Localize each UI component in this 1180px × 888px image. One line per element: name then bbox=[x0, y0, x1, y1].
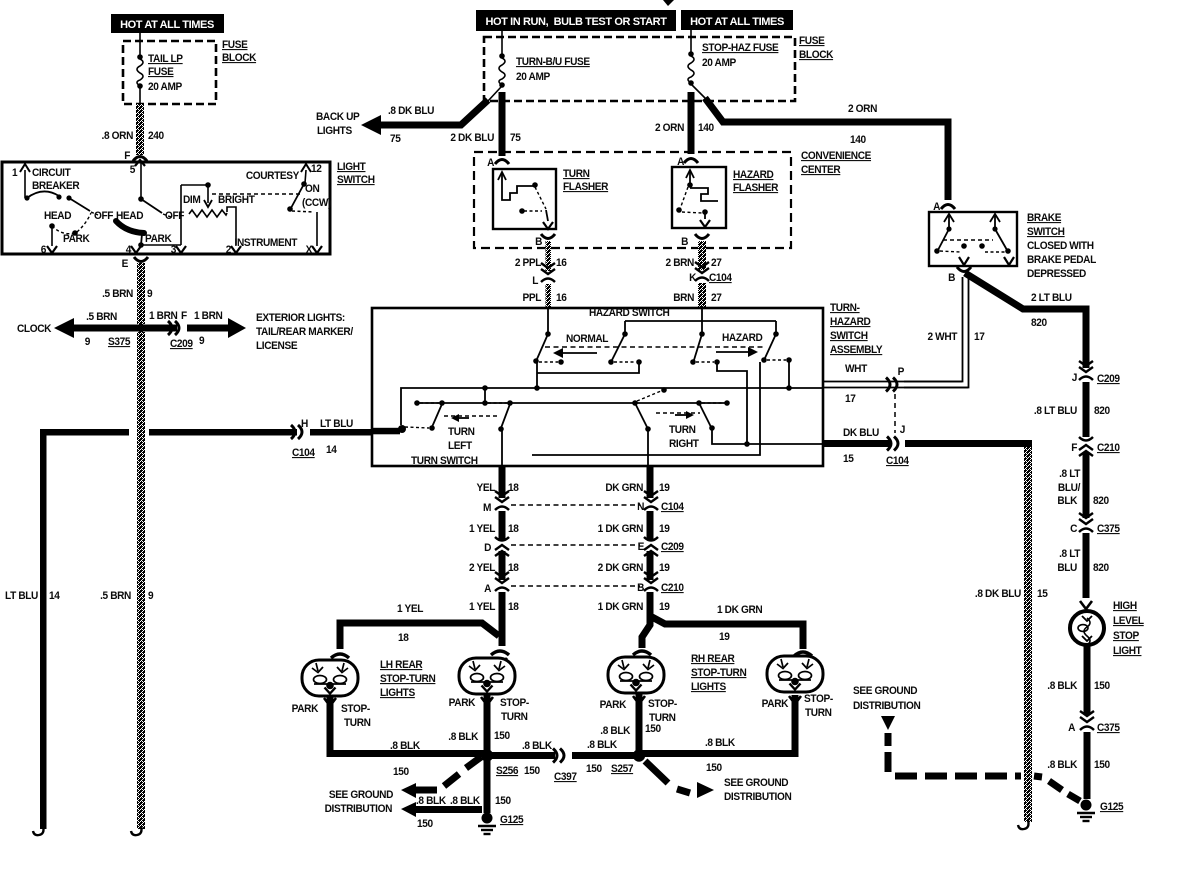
svg-text:27: 27 bbox=[711, 257, 722, 269]
label DK GRN 19 bbox=[605, 482, 670, 494]
wire DK BLU to corner bbox=[905, 440, 1032, 447]
feed label HOT IN RUN, BULB TEST OR START bbox=[476, 10, 676, 31]
connector A hazard flasher bbox=[677, 156, 698, 168]
wire 2 ORN 140 top run to brake switch bbox=[705, 98, 948, 200]
wire S256 ground stub upper (dashed) bbox=[401, 757, 481, 798]
turn right second arm bbox=[699, 403, 822, 447]
splice S375 dot overlay bbox=[137, 324, 145, 332]
wire LT BLU 14 horizontal (left of speckled wire) bbox=[43, 429, 129, 436]
wire lamp4 to S257 bbox=[639, 695, 795, 754]
rheostat zigzag bbox=[189, 210, 227, 217]
svg-text:C210: C210 bbox=[1097, 442, 1120, 454]
svg-text:150: 150 bbox=[645, 723, 661, 735]
svg-text:LIGHT: LIGHT bbox=[337, 161, 366, 173]
wire S256 to G125 bbox=[484, 755, 491, 813]
svg-text:FUSE: FUSE bbox=[799, 35, 825, 47]
svg-text:15: 15 bbox=[1037, 588, 1048, 600]
wire turn switch rail bbox=[414, 388, 730, 406]
label CONVENIENCE CENTER bbox=[801, 150, 871, 176]
svg-text:TURN: TURN bbox=[563, 168, 590, 180]
svg-text:BLOCK: BLOCK bbox=[222, 52, 257, 64]
label PARK / STOP-TURN (lamp1) bbox=[292, 703, 371, 729]
wire 1 YEL 18 (lower) bbox=[499, 592, 506, 640]
svg-text:BRAKE: BRAKE bbox=[1027, 212, 1061, 224]
svg-text:9: 9 bbox=[85, 336, 91, 348]
label .8 DK BLU 15 bbox=[975, 588, 1048, 600]
svg-text:BLOCK: BLOCK bbox=[799, 49, 834, 61]
wire .8 BLK 150 (lower) bbox=[1084, 732, 1091, 799]
label 2 ORN 140 (top run) bbox=[848, 103, 877, 146]
svg-text:DISTRIBUTION: DISTRIBUTION bbox=[853, 700, 920, 712]
arrow into lamp 3 bbox=[633, 651, 651, 666]
connector C C375 bbox=[1070, 513, 1120, 535]
svg-text:9: 9 bbox=[148, 590, 154, 602]
svg-text:BLK: BLK bbox=[1057, 495, 1077, 507]
svg-text:HOT AT ALL TIMES: HOT AT ALL TIMES bbox=[120, 19, 214, 31]
svg-text:16: 16 bbox=[556, 257, 567, 269]
brake switch internals bbox=[938, 214, 1014, 265]
arrow out of lamp 3 bbox=[633, 696, 645, 704]
svg-text:CLOSED WITH: CLOSED WITH bbox=[1027, 240, 1094, 252]
svg-text:RH REAR: RH REAR bbox=[691, 653, 735, 665]
svg-text:2 YEL: 2 YEL bbox=[469, 562, 496, 574]
label .5 BRN 9 (lower) bbox=[100, 590, 154, 602]
svg-text:OFF: OFF bbox=[94, 210, 114, 222]
svg-text:150: 150 bbox=[494, 730, 510, 742]
svg-text:HEAD: HEAD bbox=[44, 210, 72, 222]
label .8 BLK 150 (lamp1 run) bbox=[390, 740, 421, 778]
svg-text:TURN: TURN bbox=[448, 426, 475, 438]
wire hazard contact 1 routing bbox=[537, 361, 639, 390]
dashed link normal-hazard bbox=[545, 346, 764, 348]
svg-text:1 DK GRN: 1 DK GRN bbox=[598, 523, 643, 535]
svg-text:RIGHT: RIGHT bbox=[669, 438, 699, 450]
svg-text:TURN: TURN bbox=[344, 717, 371, 729]
svg-text:TURN-: TURN- bbox=[830, 302, 860, 314]
svg-text:B: B bbox=[948, 272, 956, 284]
connector A / B C210 bbox=[484, 572, 684, 595]
wire .8 BLK 150 below bulb bbox=[1084, 645, 1091, 715]
wire PPL 16 (speckled) bbox=[546, 284, 552, 309]
svg-text:140: 140 bbox=[850, 134, 866, 146]
svg-text:2 PPL: 2 PPL bbox=[515, 257, 542, 269]
wire BRN entry into hazard switch bbox=[622, 309, 779, 337]
svg-text:STOP-HAZ FUSE: STOP-HAZ FUSE bbox=[702, 42, 779, 54]
svg-text:DISTRIBUTION: DISTRIBUTION bbox=[724, 791, 791, 803]
turn left switch arm bbox=[405, 400, 445, 431]
svg-text:K: K bbox=[689, 272, 697, 284]
connector P bbox=[886, 366, 904, 392]
svg-text:SWITCH: SWITCH bbox=[830, 330, 868, 342]
labels .5 BRN 9 S375 bbox=[85, 311, 131, 348]
svg-text:SEE GROUND: SEE GROUND bbox=[724, 777, 789, 789]
svg-text:B: B bbox=[681, 236, 689, 248]
label .8 BLK 150 (lamp3 drop) bbox=[600, 723, 661, 737]
turn-hazard switch assembly box bbox=[372, 308, 823, 466]
dashed link P to J bbox=[894, 394, 896, 433]
svg-text:.8 BLK: .8 BLK bbox=[587, 739, 618, 751]
svg-text:BACK UP: BACK UP bbox=[316, 111, 360, 123]
label CIRCUIT BREAKER bbox=[32, 167, 80, 192]
svg-text:E: E bbox=[122, 258, 129, 270]
svg-text:3: 3 bbox=[171, 244, 177, 256]
label EXTERIOR LIGHTS: TAIL/REAR MARKER/ LICENSE bbox=[256, 312, 353, 352]
svg-text:18: 18 bbox=[508, 562, 519, 574]
svg-text:S375: S375 bbox=[108, 336, 131, 348]
svg-text:C104: C104 bbox=[709, 272, 732, 284]
splice S375 bbox=[137, 324, 145, 332]
wire .8 LT BLU 820 (lower) bbox=[1083, 533, 1090, 598]
label FUSE BLOCK (left) bbox=[222, 39, 257, 64]
svg-text:HAZARD: HAZARD bbox=[733, 169, 774, 181]
ground G125 (right) bbox=[1077, 800, 1124, 822]
svg-text:.5 BRN: .5 BRN bbox=[100, 590, 131, 602]
svg-text:A: A bbox=[1068, 722, 1076, 734]
svg-text:.8 LT: .8 LT bbox=[1059, 468, 1081, 480]
label PARK / STOP-TURN (lamp2) bbox=[449, 697, 530, 723]
svg-text:STOP-: STOP- bbox=[341, 703, 371, 715]
wire arrow to CLOCK bbox=[17, 318, 141, 338]
svg-text:G125: G125 bbox=[500, 814, 524, 826]
label .8 BLK 150 (lower) bbox=[1047, 759, 1110, 771]
svg-text:SWITCH: SWITCH bbox=[1027, 226, 1065, 238]
hazard arm 2 bbox=[690, 334, 720, 365]
svg-text:BLU: BLU bbox=[1057, 562, 1077, 574]
svg-text:PARK: PARK bbox=[449, 697, 476, 709]
svg-text:DK GRN: DK GRN bbox=[605, 482, 643, 494]
svg-text:ON: ON bbox=[305, 183, 319, 195]
label 2 YEL 18 bbox=[469, 562, 519, 574]
wire lamp3 to S257 bbox=[636, 694, 643, 755]
svg-text:LT BLU: LT BLU bbox=[5, 590, 38, 602]
courtesy switch arm bbox=[287, 181, 314, 212]
wire bottom link rail bbox=[532, 362, 760, 455]
svg-text:C104: C104 bbox=[886, 455, 909, 467]
svg-text:C209: C209 bbox=[1097, 373, 1120, 385]
svg-text:WHT: WHT bbox=[845, 363, 868, 375]
label NORMAL with arrow bbox=[553, 333, 609, 358]
lamp RH rear 3 bbox=[608, 657, 664, 693]
hazard flasher box bbox=[672, 167, 726, 228]
svg-text:TURN: TURN bbox=[649, 712, 676, 724]
svg-text:M: M bbox=[483, 502, 492, 514]
label 1 YEL 18 (branch) bbox=[397, 603, 424, 644]
bulb HIGH LEVEL STOP LIGHT bbox=[1070, 611, 1104, 645]
svg-text:SWITCH: SWITCH bbox=[337, 174, 375, 186]
svg-text:LT BLU: LT BLU bbox=[320, 418, 353, 430]
turn left yel arm bbox=[488, 403, 510, 466]
svg-text:SEE GROUND: SEE GROUND bbox=[329, 789, 394, 801]
arrow into lamp 2 bbox=[491, 651, 509, 666]
label .8 BLK 150 (lamp4 run) bbox=[705, 737, 736, 774]
lamp RH rear 4 bbox=[767, 656, 823, 692]
wire WHT feed rail bbox=[401, 385, 822, 425]
svg-text:1: 1 bbox=[12, 167, 18, 179]
bottom terminal arrows bbox=[47, 246, 322, 253]
svg-text:N: N bbox=[637, 501, 644, 513]
feed label HOT AT ALL TIMES (left) bbox=[111, 14, 224, 33]
wiper arrow onto rheostat bbox=[204, 187, 212, 207]
svg-text:240: 240 bbox=[148, 130, 164, 142]
ground G125 (left) bbox=[478, 813, 524, 835]
connector E below light switch bbox=[122, 257, 148, 270]
svg-text:TAIL/REAR MARKER/: TAIL/REAR MARKER/ bbox=[256, 326, 353, 338]
wire .8 DK BLU to back up lights bbox=[380, 100, 488, 125]
connector B turn flasher bbox=[535, 234, 555, 248]
wire 1 BRN to exterior lights bbox=[141, 318, 246, 338]
svg-text:DISTRIBUTION: DISTRIBUTION bbox=[325, 803, 392, 815]
fuse block box (left, dashed) bbox=[123, 41, 216, 104]
labels 1 BRN F 1 BRN C209 9 bbox=[149, 310, 222, 350]
dim-bright feed wire bbox=[181, 182, 211, 245]
head contact left bbox=[49, 213, 91, 246]
svg-text:C210: C210 bbox=[661, 582, 684, 594]
svg-text:(CCW): (CCW) bbox=[302, 197, 331, 209]
connector H C104 bbox=[291, 418, 353, 459]
wire blade to terminal 4 bbox=[138, 234, 144, 248]
svg-text:G125: G125 bbox=[1100, 801, 1124, 813]
label .8 ORN 240 bbox=[102, 130, 165, 142]
svg-text:PPL: PPL bbox=[523, 292, 542, 304]
turn flasher internals bbox=[498, 172, 553, 229]
wire .5 BRN 9 (speckled) bbox=[137, 263, 145, 324]
svg-text:150: 150 bbox=[393, 766, 409, 778]
svg-text:C375: C375 bbox=[1097, 722, 1120, 734]
wire S256 ground stub lower bbox=[401, 802, 482, 817]
label BRN 27 bbox=[673, 292, 722, 304]
svg-text:2 ORN: 2 ORN bbox=[848, 103, 877, 115]
svg-text:18: 18 bbox=[508, 601, 519, 613]
svg-text:CIRCUIT: CIRCUIT bbox=[32, 167, 71, 179]
wire ground distribution dashed run bbox=[881, 716, 1080, 801]
label TURN RIGHT with arrow bbox=[656, 411, 700, 450]
svg-text:LIGHT: LIGHT bbox=[1113, 645, 1142, 657]
wire hazard contact 2 routing bbox=[717, 362, 747, 443]
wire lamp2 to S256 bbox=[484, 695, 491, 755]
circuit breaker element bbox=[24, 191, 98, 215]
label STOP-HAZ FUSE 20 AMP bbox=[702, 42, 779, 69]
label SEE GROUND DISTRIBUTION (left) bbox=[325, 789, 394, 815]
wire fuse to block edge bbox=[139, 86, 141, 104]
svg-text:2 DK GRN: 2 DK GRN bbox=[598, 562, 643, 574]
arrow into stop light bbox=[1080, 601, 1092, 609]
wire 2 DK GRN 19 bbox=[647, 551, 654, 580]
wire PPL entry into hazard switch bbox=[545, 309, 551, 337]
label TURN LEFT with arrow bbox=[444, 414, 497, 452]
wire S256 to C397 bbox=[487, 752, 555, 759]
wire to terminal X bbox=[316, 212, 318, 246]
label .8 DK BLU 75 bbox=[388, 105, 434, 145]
labels DIM BRIGHT bbox=[183, 194, 255, 206]
svg-text:STOP-: STOP- bbox=[804, 693, 834, 705]
label 2 ORN 140 (flasher) bbox=[655, 122, 714, 134]
svg-text:HEAD: HEAD bbox=[116, 210, 144, 222]
connector A C375 bbox=[1068, 711, 1120, 734]
connector B brake switch bbox=[948, 267, 971, 284]
light switch box bbox=[2, 162, 330, 254]
terminal 12 arrow bbox=[301, 163, 322, 183]
svg-text:C: C bbox=[1070, 523, 1078, 535]
svg-text:BRIGHT: BRIGHT bbox=[218, 194, 255, 206]
svg-text:DK BLU: DK BLU bbox=[843, 427, 879, 439]
svg-text:150: 150 bbox=[1094, 759, 1110, 771]
wire S257 ground stub (dashed) bbox=[645, 761, 714, 798]
wire 1 DK GRN 19 branch to RH lamp 4 bbox=[652, 617, 803, 649]
svg-text:OFF: OFF bbox=[165, 210, 185, 222]
label DK BLU 15 bbox=[843, 427, 879, 465]
switch arm 5-OFF bbox=[141, 199, 171, 217]
svg-text:DEPRESSED: DEPRESSED bbox=[1027, 268, 1087, 280]
wire 1 YEL 18 branch to LH lamp bbox=[340, 623, 499, 649]
label HIGH LEVEL STOP LIGHT bbox=[1113, 600, 1145, 657]
svg-text:140: 140 bbox=[698, 122, 714, 134]
svg-text:1 YEL: 1 YEL bbox=[469, 601, 496, 613]
connector J C104 bbox=[886, 424, 909, 467]
label .8 LT BLU/BLK 820 bbox=[1057, 468, 1109, 507]
connector K C104 bbox=[689, 262, 732, 284]
wire .8 LT BLU 820 bbox=[1083, 382, 1090, 437]
wire .8 ORN 240 (speckled) bbox=[136, 104, 144, 155]
label PARK / STOP-TURN (lamp3) bbox=[600, 698, 678, 724]
svg-text:BLU/: BLU/ bbox=[1058, 482, 1081, 494]
arrow into lamp 1 bbox=[331, 654, 349, 669]
svg-text:19: 19 bbox=[719, 631, 730, 643]
wire rheostat to terminal 2 bbox=[227, 207, 236, 245]
svg-text:SEE GROUND: SEE GROUND bbox=[853, 685, 918, 697]
wire 2 PPL 16 (speckled) bbox=[546, 241, 552, 271]
svg-text:A: A bbox=[484, 583, 492, 595]
svg-text:17: 17 bbox=[974, 331, 985, 343]
splice S257 bbox=[633, 749, 645, 761]
svg-text:820: 820 bbox=[1093, 495, 1109, 507]
label 2 BRN 27 bbox=[666, 257, 722, 269]
svg-text:150: 150 bbox=[495, 795, 511, 807]
svg-text:FLASHER: FLASHER bbox=[563, 181, 609, 193]
wire 1 YEL 18 bbox=[499, 511, 506, 540]
wire 2 WHT 17 (white wire, double line) bbox=[823, 277, 969, 388]
svg-text:B: B bbox=[637, 582, 645, 594]
wire to turn-b/u fuse bbox=[501, 31, 503, 55]
svg-text:1 DK GRN: 1 DK GRN bbox=[717, 604, 762, 616]
svg-text:150: 150 bbox=[524, 765, 540, 777]
hazard arm 3 bbox=[761, 334, 792, 363]
label .5 BRN 9 bbox=[102, 288, 153, 300]
svg-text:ASSEMBLY: ASSEMBLY bbox=[830, 344, 883, 356]
label TAIL LP FUSE 20 AMP bbox=[148, 53, 183, 93]
svg-text:A: A bbox=[487, 157, 495, 169]
splice S256 bbox=[481, 749, 540, 777]
svg-text:HOT IN RUN, BULB TEST OR STAR: HOT IN RUN, BULB TEST OR START bbox=[485, 16, 667, 28]
svg-text:.8 BLK: .8 BLK bbox=[416, 795, 447, 807]
svg-text:14: 14 bbox=[326, 444, 337, 456]
wire to stop-haz fuse bbox=[690, 30, 692, 53]
wire YEL into lamp 2 bbox=[499, 630, 506, 646]
svg-text:J: J bbox=[1072, 372, 1078, 384]
label 2 WHT 17 bbox=[928, 331, 985, 343]
svg-text:C209: C209 bbox=[661, 541, 684, 553]
svg-text:19: 19 bbox=[659, 562, 670, 574]
label TURN-B/U FUSE 20 AMP bbox=[516, 56, 590, 83]
terminal 1 arrow bbox=[12, 164, 30, 198]
label BACK UP LIGHTS bbox=[316, 111, 360, 137]
label .8 BLK 150 (lamp2 drop) bbox=[448, 730, 510, 743]
svg-text:HIGH: HIGH bbox=[1113, 600, 1137, 612]
dashed link dim to courtesy bbox=[212, 193, 301, 195]
label LIGHT SWITCH bbox=[337, 161, 375, 186]
svg-text:PARK: PARK bbox=[762, 698, 789, 710]
wire 2 DK BLU 75 bbox=[499, 92, 506, 156]
svg-text:.8 BLK: .8 BLK bbox=[1047, 759, 1078, 771]
labels HEAD OFF HEAD OFF bbox=[44, 210, 185, 222]
svg-text:HOT AT ALL TIMES: HOT AT ALL TIMES bbox=[690, 16, 784, 28]
label HAZARD with arrow bbox=[716, 332, 763, 357]
label BRAKE SWITCH CLOSED WITH BRAKE PEDAL DEPRESSED bbox=[1027, 212, 1097, 280]
fuse block box (center, dashed) bbox=[484, 37, 795, 101]
wire 4 to 3 bbox=[141, 244, 181, 246]
connector F C210 bbox=[1071, 437, 1120, 456]
svg-text:X: X bbox=[306, 244, 313, 256]
wire LT BLU into switch box bbox=[310, 429, 373, 436]
hook end of .5 BRN wire bbox=[131, 826, 142, 835]
svg-text:1 DK GRN: 1 DK GRN bbox=[598, 601, 643, 613]
svg-text:TAIL LP: TAIL LP bbox=[148, 53, 183, 65]
svg-text:150: 150 bbox=[586, 763, 602, 775]
svg-text:C209: C209 bbox=[170, 338, 193, 350]
svg-text:LH REAR: LH REAR bbox=[380, 659, 423, 671]
svg-text:1 YEL: 1 YEL bbox=[397, 603, 424, 615]
label PARK / STOP-TURN (lamp4) bbox=[762, 693, 834, 719]
svg-text:12: 12 bbox=[311, 163, 322, 175]
wire 1 DK GRN 19 bbox=[647, 511, 654, 540]
svg-text:HAZARD: HAZARD bbox=[722, 332, 763, 344]
label .8 BLK 150 bbox=[1047, 680, 1110, 692]
svg-text:INSTRUMENT: INSTRUMENT bbox=[235, 237, 298, 249]
svg-text:.8 BLK: .8 BLK bbox=[390, 740, 421, 752]
svg-text:20 AMP: 20 AMP bbox=[702, 57, 736, 69]
wire hazard contact 3 routing bbox=[788, 360, 790, 388]
svg-text:2 LT BLU: 2 LT BLU bbox=[1031, 292, 1072, 304]
svg-text:.8 ORN: .8 ORN bbox=[102, 130, 133, 142]
connector A turn flasher bbox=[487, 157, 509, 169]
svg-text:COURTESY: COURTESY bbox=[246, 170, 300, 182]
svg-text:BRAKE PEDAL: BRAKE PEDAL bbox=[1027, 254, 1097, 266]
svg-text:16: 16 bbox=[556, 292, 567, 304]
label TURN FLASHER bbox=[563, 168, 609, 193]
wire 2 YEL 18 bbox=[499, 551, 506, 580]
label TURN-HAZARD SWITCH ASSEMBLY bbox=[830, 302, 883, 356]
svg-text:YEL: YEL bbox=[477, 482, 496, 494]
svg-text:1 BRN: 1 BRN bbox=[194, 310, 222, 322]
label 2 DK BLU 75 bbox=[450, 132, 521, 144]
svg-text:9: 9 bbox=[199, 335, 205, 347]
svg-text:2 DK BLU: 2 DK BLU bbox=[450, 132, 494, 144]
svg-text:.8 BLK: .8 BLK bbox=[522, 740, 553, 752]
svg-text:PARK: PARK bbox=[292, 703, 319, 715]
label 2 DK GRN 19 bbox=[598, 562, 670, 574]
svg-text:EXTERIOR LIGHTS:: EXTERIOR LIGHTS: bbox=[256, 312, 345, 324]
label 1 YEL 18 (lower) bbox=[469, 601, 519, 613]
hook end of .8 DK BLU bbox=[1018, 820, 1029, 829]
svg-text:C375: C375 bbox=[1097, 523, 1120, 535]
label HAZARD FLASHER bbox=[733, 169, 779, 194]
park blade (thick arc) bbox=[116, 221, 144, 233]
svg-text:.8 DK BLU: .8 DK BLU bbox=[975, 588, 1021, 600]
label .8 LT BLU 820 (lower) bbox=[1057, 548, 1109, 574]
label LH REAR STOP-TURN LIGHTS bbox=[380, 659, 435, 699]
labels ON CCW bbox=[302, 183, 331, 209]
svg-text:1 BRN: 1 BRN bbox=[149, 310, 177, 322]
label 2 PPL 16 bbox=[515, 257, 567, 269]
